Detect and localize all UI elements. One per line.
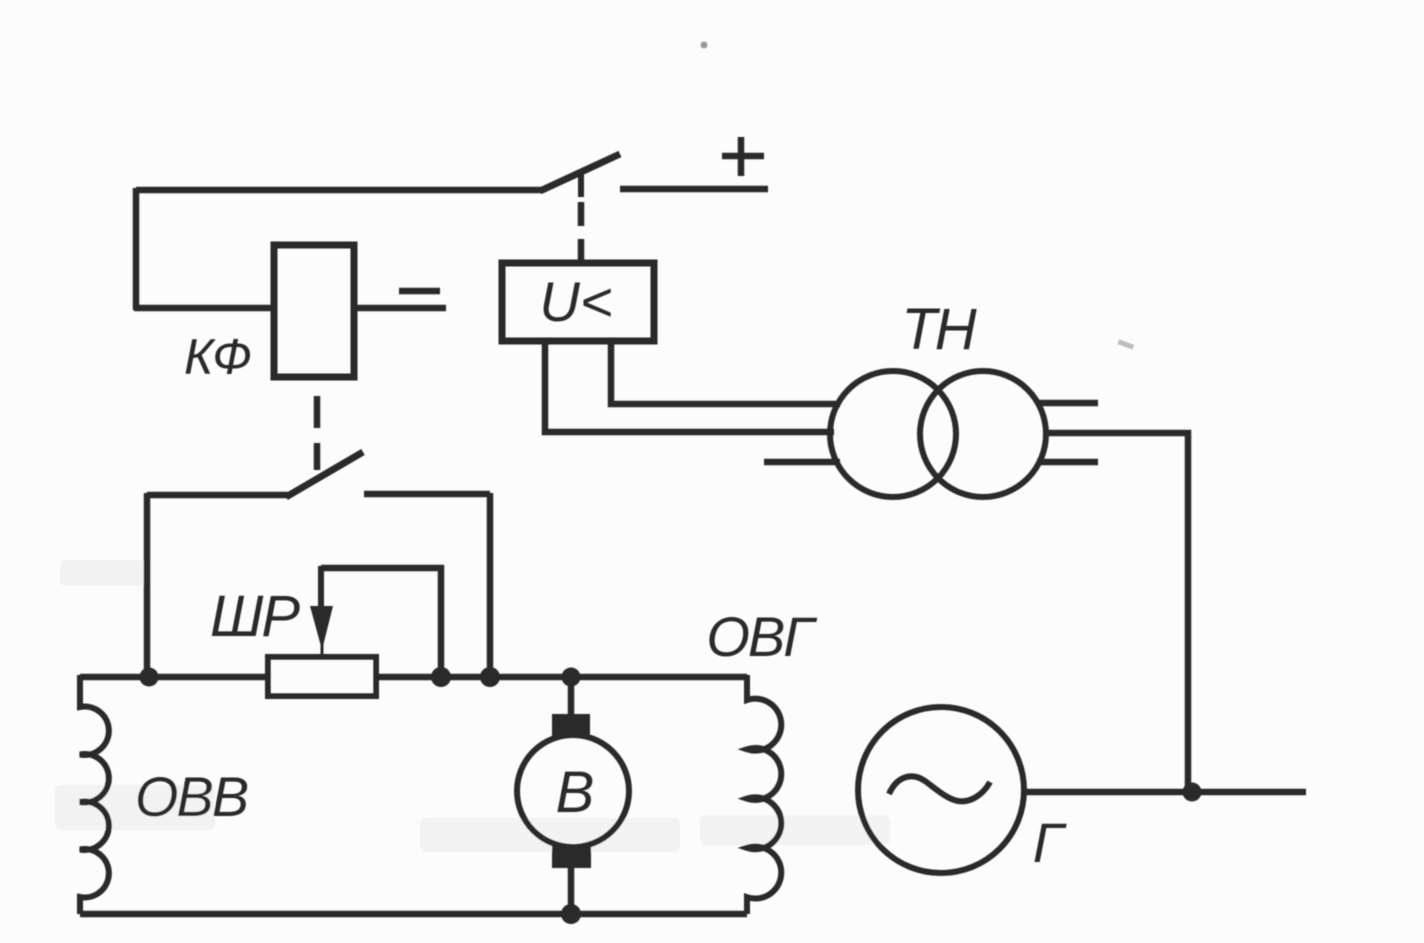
wiper arrowhead xyxy=(310,606,333,650)
dashed link switch1 to U< xyxy=(578,202,585,262)
svg-text:ОВГ: ОВГ xyxy=(706,605,817,668)
switch S1 pivot tick xyxy=(578,174,584,197)
svg-text:U<: U< xyxy=(539,270,612,333)
generator G circle xyxy=(858,707,1024,873)
TN bottom-left stub xyxy=(764,459,840,466)
wire right of switch1 to plus xyxy=(620,186,768,193)
switch S1 arm xyxy=(540,154,620,191)
exciter B circle xyxy=(517,735,629,847)
svg-text:КФ: КФ xyxy=(184,329,252,385)
wire U< left leg to TN lower xyxy=(545,341,834,432)
OVG coil (generator field) xyxy=(747,675,781,914)
relay coil KF box xyxy=(274,245,354,377)
excitation bus left xyxy=(80,674,268,681)
transformer TN right winding xyxy=(920,371,1046,497)
wire U< right leg to TN upper xyxy=(611,341,840,404)
wire left vertical xyxy=(133,188,140,310)
TN top-right stub xyxy=(1037,400,1098,407)
exciter B branch top wire xyxy=(568,677,575,716)
node dot bottom xyxy=(561,904,581,924)
dashed link KF to switch2 xyxy=(314,396,321,470)
switch S2 arm xyxy=(286,452,363,497)
OVV coil (exciter field) xyxy=(80,675,109,914)
rheostat wiper stem xyxy=(318,566,324,610)
wire TN middle to vertical down to G xyxy=(1043,433,1188,792)
wire S2 right vertical xyxy=(487,493,494,677)
svg-text:ТН: ТН xyxy=(901,297,976,362)
TN bottom-right stub xyxy=(1037,459,1098,466)
transformer TN left winding xyxy=(830,371,956,497)
wire top horizontal to switch1 xyxy=(136,187,542,194)
speck near TH xyxy=(1117,339,1134,349)
excitation bus right xyxy=(376,674,747,681)
rheostat ShR box xyxy=(268,657,376,696)
switch S2 left wire xyxy=(147,492,289,499)
svg-text:ШР: ШР xyxy=(210,584,300,649)
brush top xyxy=(552,714,590,738)
svg-text:В: В xyxy=(556,760,595,825)
undervoltage relay U< box xyxy=(502,263,654,341)
sine wave xyxy=(889,776,990,801)
wire G to right xyxy=(1024,789,1306,796)
rheostat bypass wire xyxy=(321,568,441,677)
switch S2 right wire xyxy=(364,491,490,498)
node dots on bus xyxy=(140,668,159,687)
wire S2 left vertical xyxy=(144,493,151,677)
brush bottom xyxy=(552,846,591,868)
plus terminal xyxy=(722,137,764,176)
svg-text:Г: Г xyxy=(1033,811,1067,874)
wire out of KF (minus bar) xyxy=(352,305,446,312)
scan noise patches xyxy=(55,560,890,852)
equals upper dash xyxy=(399,288,440,295)
speck top center xyxy=(701,42,708,49)
junction node xyxy=(1183,783,1202,802)
bottom bus xyxy=(80,911,747,918)
wire into KF coil xyxy=(134,305,276,312)
exciter B bottom wire xyxy=(568,866,575,914)
svg-text:ОВВ: ОВВ xyxy=(135,765,248,828)
